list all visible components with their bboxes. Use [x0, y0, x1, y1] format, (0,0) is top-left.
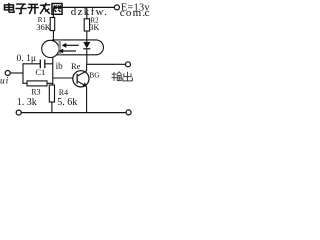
wire block left edge: [22, 63, 24, 84]
char chu: [127, 72, 129, 81]
photocell circle: [42, 40, 59, 57]
transistor collector: [78, 64, 87, 76]
LED anode wire: [86, 40, 88, 42]
wire LED to collector node: [86, 49, 88, 64]
svg-text:com.: com.: [120, 7, 147, 19]
svg-text:R3: R3: [31, 88, 40, 97]
LED cathode bar: [83, 48, 90, 49]
wire photocell to node: [52, 58, 54, 86]
svg-text:5. 6k: 5. 6k: [57, 97, 77, 108]
svg-text:ib: ib: [56, 61, 64, 71]
char kai: [28, 3, 38, 5]
svg-text:u: u: [0, 77, 5, 87]
terminal output top: [126, 62, 131, 67]
terminal ground left: [16, 110, 21, 115]
wire R4 to ground: [51, 102, 53, 113]
wire R2 vertical: [86, 7, 88, 19]
svg-text:3K: 3K: [90, 23, 100, 32]
resistor R4: [49, 85, 54, 102]
wire emitter to ground: [86, 87, 88, 113]
resistor R3: [27, 81, 47, 86]
svg-text:i: i: [6, 77, 9, 87]
char shu: [113, 72, 115, 81]
wire base: [53, 77, 77, 79]
transistor base bar: [77, 74, 78, 84]
transistor BG circle: [73, 71, 89, 87]
resistor R1: [50, 18, 55, 31]
svg-text:cn: cn: [145, 7, 151, 19]
wire R1 vertical: [52, 7, 54, 17]
char zi: [16, 3, 26, 5]
transistor emitter: [78, 81, 87, 86]
wire capacitor branch: [23, 63, 40, 65]
capacitor C1 plates: [39, 60, 41, 69]
optocoupler stadium body: [52, 40, 103, 55]
photocell gray bar: [58, 40, 61, 55]
svg-text:0. 1μ: 0. 1μ: [17, 53, 37, 64]
LED triangle: [83, 42, 90, 48]
char fa: [40, 4, 50, 7]
terminal output bottom: [126, 110, 131, 115]
svg-text:BG: BG: [89, 70, 100, 79]
light arrow lower: [62, 50, 76, 52]
watermark CJK dianzikaifawang: [4, 3, 62, 15]
terminal ui input: [5, 71, 10, 76]
svg-text:36K: 36K: [36, 22, 52, 32]
light arrow upper: [65, 44, 79, 46]
terminal E supply: [114, 5, 119, 10]
char dian: [8, 3, 10, 12]
char wang: [52, 4, 62, 15]
svg-text:C1: C1: [35, 67, 45, 77]
wire input: [10, 72, 23, 74]
wire top supply rail: [53, 6, 114, 8]
resistor R2: [84, 19, 89, 31]
svg-text:1. 3k: 1. 3k: [17, 97, 37, 108]
label shuchu (output): [112, 72, 133, 81]
wire R3 branch: [23, 82, 27, 84]
svg-text:R4: R4: [59, 88, 68, 97]
wire collector to output: [87, 63, 126, 65]
svg-text:Re: Re: [71, 61, 81, 71]
svg-text:dzkfw.: dzkfw.: [71, 6, 108, 18]
wire ground rail: [21, 112, 126, 114]
